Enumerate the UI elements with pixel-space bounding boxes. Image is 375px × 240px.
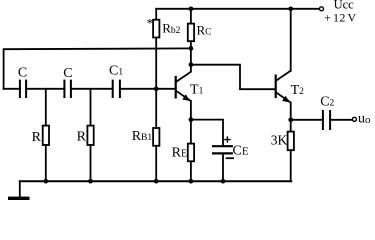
svg-text:CE: CE: [233, 143, 249, 158]
svg-text:RE: RE: [172, 145, 187, 160]
svg-text:C: C: [18, 66, 27, 81]
svg-text:*: *: [147, 16, 154, 31]
svg-text:3K: 3K: [271, 133, 288, 148]
svg-text:R: R: [77, 129, 87, 144]
svg-text:+12V: +12V: [324, 11, 356, 25]
svg-text:R: R: [32, 130, 42, 145]
svg-text:C: C: [63, 66, 72, 81]
svg-text:uo: uo: [358, 112, 371, 127]
